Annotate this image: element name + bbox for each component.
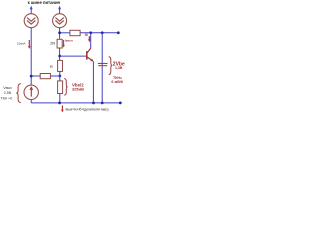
brace for Vвых [16, 84, 21, 103]
wire: diode branch upper [101, 33, 103, 63]
node dot rail chain [58, 102, 61, 105]
node dot J4 [58, 75, 61, 78]
current source CS1 (left, double chevron down) [24, 14, 38, 28]
diode stack bars (2Vbe) [98, 63, 108, 65]
svg-text:325мВ: 325мВ [72, 87, 84, 91]
wire: left branch vertical [30, 28, 32, 87]
wire: base wire [60, 55, 87, 57]
svg-text:2R: 2R [50, 40, 55, 45]
resistor RH2 (top horizontal) [70, 30, 80, 35]
wire: 2R to R [59, 48, 61, 60]
svg-text:к шине питания: к шине питания [28, 0, 61, 5]
current annotation arrow at 2R [62, 40, 65, 48]
resistor Rv (Vbe/2) [58, 81, 63, 94]
svg-text:ТКН ≈0: ТКН ≈0 [0, 96, 12, 100]
resistor 2R [57, 39, 62, 48]
node dot collector [89, 31, 92, 34]
wire: CS2 to 2R [59, 28, 61, 40]
node dot J2 [58, 31, 61, 34]
svg-text:Iб: Iб [85, 33, 89, 37]
resistor R [58, 60, 63, 71]
transistor Q1 [87, 48, 94, 62]
wire: diode branch lower [101, 66, 103, 103]
wire: R to Rv [59, 71, 61, 81]
svg-text:1,3В: 1,3В [115, 66, 123, 70]
wire: Rv to bottom rail [59, 94, 61, 103]
resistor RH1 (horizontal link) [40, 74, 50, 79]
node dot rail emitter [92, 102, 95, 105]
current annotation arrow below rail [61, 106, 64, 113]
node dot diode branch [101, 31, 104, 34]
brace for 2Vbe [109, 57, 113, 75]
svg-text:Iувел: Iувел [65, 39, 73, 43]
svg-text:6 мВ/К: 6 мВ/К [111, 80, 123, 84]
wire: horizontal link left [31, 75, 60, 77]
svg-text:2,5В: 2,5В [4, 91, 12, 95]
node dot J3 (base node) [58, 55, 61, 58]
wire: emitter down [92, 61, 94, 103]
wire: top rail [60, 32, 119, 34]
wire: bottom rail [31, 102, 120, 104]
svg-text:10мкА: 10мкА [17, 42, 25, 46]
wire: right supply stub with up arrow [58, 6, 61, 15]
current annotation arrow Iб [88, 36, 91, 42]
wire: CS3 to rail [30, 99, 32, 103]
current source CS3 (output, up arrow) [24, 85, 38, 99]
node dot left branch junction [30, 75, 33, 78]
node dot rail end [119, 102, 122, 105]
svg-text:Vвых: Vвых [3, 86, 12, 90]
wire: left supply stub with up arrow [30, 6, 33, 15]
svg-text:Iвых=Iк+Iб+Iделителя+Iнагр.: Iвых=Iк+Iб+Iделителя+Iнагр. [66, 107, 110, 111]
svg-text:R: R [50, 65, 53, 69]
current source CS2 (right, double chevron down) [53, 14, 67, 28]
node dot rail diode branch [101, 102, 104, 105]
node dot rail end [117, 31, 120, 34]
wire: collector up [90, 33, 92, 48]
current annotation arrow (left branch) [28, 40, 31, 49]
brace for Vbe/2 [64, 79, 68, 96]
